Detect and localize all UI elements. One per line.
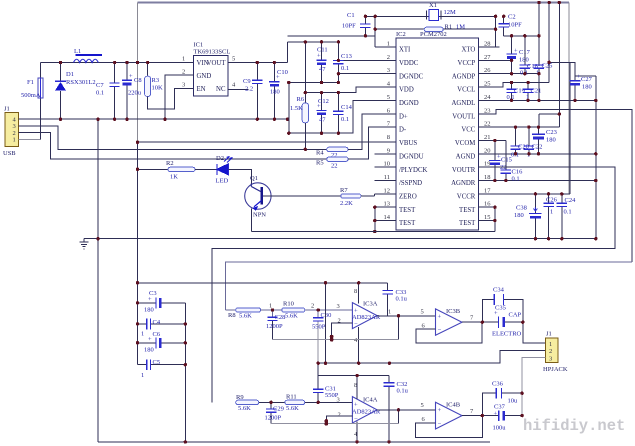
svg-text:25: 25 (484, 81, 491, 88)
svg-text:AGND: AGND (456, 153, 476, 160)
wire IC3A power pin8 riser (358, 283, 360, 304)
wire VCC branch y114.1 (539, 114, 559, 127)
svg-text:+: + (148, 296, 152, 303)
junction dots crystal (364, 15, 506, 38)
svg-text:D-: D- (399, 127, 407, 134)
svg-text:AGNDR: AGNDR (451, 180, 476, 187)
crystal X1 12M (365, 2, 495, 20)
svg-text:C23: C23 (546, 129, 557, 136)
wire USB pin4 stub (19, 118, 25, 120)
svg-text:0.1u: 0.1u (397, 388, 409, 395)
svg-text:+: + (438, 407, 442, 414)
wire 5V drop x539 (538, 3, 540, 67)
capacitor C8 electrolytic (122, 63, 142, 120)
svg-text:11: 11 (384, 174, 390, 181)
svg-text:12M: 12M (444, 9, 457, 16)
wire pin28 XTO riser (478, 46, 495, 48)
svg-text:12: 12 (384, 187, 391, 194)
svg-text:5: 5 (421, 402, 424, 409)
svg-text:C13: C13 (341, 53, 352, 60)
svg-text:3: 3 (549, 356, 552, 363)
svg-text:C38: C38 (516, 205, 527, 212)
svg-text:20: 20 (484, 147, 491, 154)
svg-text:2: 2 (311, 303, 314, 310)
svg-text:J1: J1 (546, 331, 552, 338)
capacitor C4 1 (138, 319, 186, 338)
svg-text:+: + (148, 336, 152, 343)
op-amp IC4B (421, 402, 475, 430)
svg-text:28: 28 (484, 41, 491, 48)
svg-text:180: 180 (144, 307, 154, 314)
svg-text:+: + (354, 402, 358, 409)
wire mid riser x325.5 (325, 283, 327, 363)
wire VDD rail y92.6 (305, 87, 396, 93)
wire 5V drop x549.1 (548, 3, 550, 83)
capacitor C36 10u (482, 381, 522, 416)
capacitor C15 22 electrolytic (489, 141, 512, 181)
svg-text:47: 47 (319, 66, 326, 73)
capacitor C20 0.1 (510, 127, 529, 158)
svg-text:22: 22 (484, 121, 491, 128)
svg-text:3: 3 (337, 303, 340, 310)
svg-text:C22: C22 (532, 144, 543, 151)
svg-text:C4: C4 (153, 319, 161, 326)
svg-text:R8: R8 (228, 312, 236, 319)
wire VOUTL wrap: pin23 right, down x631.8, left y262.2, down x225.4 to R8 (478, 109, 632, 262)
capacitor C28 1200P (266, 303, 285, 340)
svg-text:100u: 100u (493, 425, 507, 432)
svg-text:/SSPND: /SSPND (399, 180, 422, 187)
wire VOUTR wrap: pin19 right, down x615, left y248.6, down x211.9 to R9 (212, 167, 615, 402)
capacitor C32 0.1u (384, 376, 409, 442)
wire ground rail y238.7 (84, 238, 596, 240)
svg-text:PCM2702: PCM2702 (420, 31, 447, 38)
wire IC3A output (377, 315, 435, 317)
wire USB pin2 to D- line (19, 133, 327, 160)
svg-text:15: 15 (484, 214, 491, 221)
junction dots data path (136, 141, 307, 172)
capacitor C27 180 electrolytic (549, 62, 596, 100)
junction dots power section (59, 61, 289, 121)
wire left page border vertical x98 (97, 119, 99, 442)
svg-text:1M: 1M (456, 24, 465, 31)
wire xtal gnd rail y35.8 left (288, 35, 376, 37)
svg-text:5.6K: 5.6K (239, 313, 252, 320)
svg-text:5.6K: 5.6K (238, 405, 251, 412)
junction dots right side (96, 1, 597, 241)
wire IC1 NC stub (228, 88, 248, 90)
svg-text:C36: C36 (492, 381, 504, 388)
svg-text:TK69133SCL: TK69133SCL (194, 49, 231, 56)
wire gnd vertical x288.8 (288, 83, 290, 134)
svg-text:0.1: 0.1 (341, 65, 349, 72)
svg-text:1: 1 (549, 341, 552, 348)
svg-text:2: 2 (387, 54, 390, 61)
wire crystal node left x375.2 (375, 16, 396, 47)
resistor R7 2.2K (340, 187, 396, 207)
wire pin21 VCOM line (478, 140, 506, 142)
svg-text:C6: C6 (153, 331, 161, 338)
svg-text:−: − (438, 421, 442, 428)
svg-text:3: 3 (387, 67, 390, 74)
wire right ground bus x596 (595, 76, 597, 239)
svg-text:VCCR: VCCR (457, 194, 476, 201)
svg-text:C21: C21 (531, 88, 542, 95)
svg-text:TEST: TEST (459, 207, 476, 214)
op-amp IC3B (421, 308, 475, 335)
wire IC3B output line (462, 321, 523, 323)
wire IC3B feedback loop (416, 322, 482, 343)
svg-text:+: + (514, 48, 518, 55)
wire crystal top line (365, 15, 495, 17)
svg-text:C16: C16 (512, 169, 524, 176)
svg-text:17: 17 (484, 187, 491, 194)
svg-text:VOUT: VOUT (207, 60, 227, 67)
svg-text:1: 1 (269, 303, 272, 310)
svg-text:2: 2 (338, 412, 341, 419)
svg-text:2: 2 (549, 348, 552, 355)
svg-text:1200P: 1200P (265, 415, 282, 422)
svg-text:550P: 550P (312, 324, 326, 331)
capacitor C21 1 (523, 83, 541, 102)
svg-text:1: 1 (388, 309, 391, 316)
wire pin24 AGNDL line (478, 99, 596, 101)
svg-text:10K: 10K (152, 85, 164, 92)
wire jack pin1 wire (523, 322, 546, 343)
connector J1 USB (3, 106, 19, 158)
svg-text:180: 180 (546, 137, 556, 144)
svg-text:14: 14 (384, 214, 391, 221)
wire IC3A power pin4 riser (358, 327, 360, 363)
svg-text:J1: J1 (4, 106, 10, 113)
svg-text:0.1: 0.1 (512, 176, 520, 183)
svg-text:C15: C15 (501, 157, 512, 164)
svg-text:500mA: 500mA (21, 92, 41, 99)
svg-text:DGNDC: DGNDC (399, 73, 424, 80)
resistor R3 (145, 63, 194, 110)
wire op-amp V+ bus y282.8 (138, 282, 388, 284)
svg-text:3: 3 (337, 397, 340, 404)
capacitor C29 1200P (265, 402, 284, 423)
resistor R6 1.5K pullup (290, 42, 308, 149)
svg-text:C37: C37 (494, 404, 506, 411)
svg-text:9: 9 (387, 147, 390, 154)
svg-text:16: 16 (484, 201, 491, 208)
svg-text:R9: R9 (236, 394, 244, 401)
svg-text:C7: C7 (96, 82, 104, 89)
wire main +5V rail y62.5 (41, 62, 194, 64)
svg-text:10PF: 10PF (342, 23, 356, 30)
wire IC4B input (399, 409, 436, 411)
transistor Q1 NPN (245, 175, 495, 232)
wire TEST pins 13,14 riser (375, 207, 396, 231)
svg-text:+: + (317, 53, 321, 60)
capacitor C33 0.1u (382, 283, 407, 316)
op-amp IC4A (337, 382, 381, 438)
resistor R10 5.6K (282, 301, 353, 320)
wire pin22 VCC line (478, 126, 559, 128)
svg-text:AGNDP: AGNDP (452, 73, 476, 80)
svg-text:ELECTRO: ELECTRO (492, 331, 522, 338)
svg-text:26: 26 (484, 67, 491, 74)
wire left 5V vertical bus x137.5 (137, 3, 139, 143)
svg-text:C10: C10 (277, 69, 288, 76)
capacitor C13 (333, 42, 352, 83)
IC2 PCM2702 (384, 31, 492, 230)
svg-text:18: 18 (484, 174, 491, 181)
svg-text:1.5K: 1.5K (290, 105, 303, 112)
svg-text:180: 180 (514, 212, 524, 219)
svg-text:DGNDU: DGNDU (399, 153, 424, 160)
svg-text:0.1u: 0.1u (396, 296, 408, 303)
capacitor C10 electrolytic (269, 63, 288, 120)
svg-text:RSX301L2: RSX301L2 (66, 79, 96, 86)
svg-text:8: 8 (387, 134, 390, 141)
wire VOUTL light segment to R8 (225, 262, 631, 310)
resistor R8 5.6K (225, 308, 281, 320)
svg-text:180: 180 (582, 84, 592, 91)
capacitor C17 electrolytic (506, 36, 530, 74)
svg-text:XTI: XTI (399, 47, 411, 54)
op-amp IC3A (337, 288, 392, 344)
svg-text:1K: 1K (170, 174, 178, 181)
capacitor C38 180 electrolytic (514, 194, 542, 239)
svg-text:R6: R6 (297, 96, 305, 103)
svg-text:USB: USB (3, 150, 16, 157)
svg-text:10PF: 10PF (508, 22, 522, 29)
capacitor C23 180 electrolytic (532, 127, 557, 154)
capacitor C16 0.1 (501, 141, 523, 183)
svg-text:AGNDL: AGNDL (452, 100, 476, 107)
wire USB pin3 to D+ line (19, 126, 327, 150)
svg-text:−: − (354, 321, 358, 328)
junction dots rails (287, 40, 340, 135)
capacitor C35 electrolytic CAP (492, 305, 522, 338)
wire pin25 VCCL jog line (478, 83, 549, 88)
svg-text:TEST: TEST (399, 207, 416, 214)
capacitor C7 (96, 63, 120, 120)
wire pin17 VCCR line (478, 62, 570, 194)
wire right 5V vertical x569 to VCCR (568, 3, 570, 194)
capacitor C31 550P (313, 363, 339, 402)
svg-text:C29: C29 (273, 406, 284, 413)
svg-text:IC3A: IC3A (363, 301, 378, 308)
diode D1 (55, 63, 96, 120)
svg-text:HPJACK: HPJACK (543, 366, 568, 373)
svg-text:X1: X1 (429, 2, 437, 9)
wire IC4A output (377, 409, 435, 411)
svg-text:C2: C2 (508, 14, 516, 21)
wire IC1 GND pin2 drop (165, 75, 194, 119)
capacitor C25 1 (pin26 pair right) (534, 36, 553, 102)
svg-text:220u: 220u (128, 90, 142, 97)
wire 3.3V vertical x287.5 (287, 42, 289, 63)
wire DGNDC rail y82.5 (289, 82, 339, 84)
svg-text:VDD: VDD (399, 87, 414, 94)
svg-text:DGND: DGND (399, 100, 419, 107)
svg-text:C1: C1 (347, 12, 355, 19)
resistor R11 5.6K (285, 394, 353, 413)
wire xtal gnd rail y35.8 right (504, 35, 539, 37)
wire IC4B feedback loop (415, 416, 482, 438)
wire pin18 AGNDR line (478, 180, 596, 182)
svg-text:F1: F1 (27, 79, 34, 86)
svg-text:IC2: IC2 (396, 31, 406, 38)
svg-text:24: 24 (484, 94, 491, 101)
svg-text:1: 1 (13, 137, 16, 144)
svg-text:1: 1 (141, 331, 144, 338)
svg-text:19: 19 (484, 161, 491, 168)
svg-text:C9: C9 (243, 78, 251, 85)
resistor R2 1K (138, 160, 217, 181)
svg-text:47: 47 (319, 117, 326, 124)
ground symbol (80, 239, 89, 249)
svg-text:C24: C24 (565, 197, 577, 204)
wire pin26 AGNDP line (478, 73, 540, 75)
svg-text:5: 5 (232, 56, 235, 63)
wire IC3A feedback net (398, 316, 400, 340)
svg-text:C28: C28 (275, 314, 286, 321)
svg-text:D1: D1 (66, 71, 74, 78)
svg-text:IC1: IC1 (194, 42, 204, 49)
capacitor C3 180 electrolytic (138, 290, 186, 314)
wire DGND rail y133.2 (289, 100, 396, 133)
svg-text:R1: R1 (445, 24, 453, 31)
junction dots IC3A cell (271, 281, 400, 365)
junction dots ladder (136, 281, 187, 444)
wire USB pin1 to fuse (19, 139, 41, 141)
capacitor C14 (333, 93, 352, 134)
svg-text:NPN: NPN (253, 212, 266, 219)
svg-text:C34: C34 (493, 287, 505, 294)
svg-text:C14: C14 (341, 104, 353, 111)
svg-text:180: 180 (144, 347, 154, 354)
wire TEST pins 15,16 riser (478, 207, 495, 231)
svg-text:R4: R4 (316, 150, 324, 157)
svg-text:CAP: CAP (509, 312, 522, 319)
wire VDDC riser to pin2 (338, 42, 396, 61)
svg-text:AD823AR: AD823AR (352, 314, 381, 321)
capacitor C5 1 (138, 359, 186, 379)
svg-text:27: 27 (484, 54, 491, 61)
svg-text:R3: R3 (152, 77, 160, 84)
wire IC4A power pin8 riser (356, 376, 358, 399)
svg-text:−: − (438, 327, 442, 334)
wire cap ladder right bus x185.3 (184, 303, 186, 442)
junction dots IC4B cell (481, 392, 524, 418)
svg-text:GND: GND (197, 73, 212, 80)
IC1 regulator TK69133SCL (182, 42, 236, 96)
wire bottom border (98, 441, 490, 443)
wire 5V drop x559.3 (558, 3, 560, 128)
wire pin stubs left (375, 153, 396, 155)
wire VDDC rail y41.9 (288, 41, 339, 43)
capacitor C9 (243, 63, 263, 120)
svg-text:2: 2 (182, 69, 185, 76)
svg-text:21: 21 (484, 134, 491, 141)
svg-text:D+: D+ (399, 113, 408, 120)
svg-text:D2: D2 (216, 155, 224, 162)
fuse F1 (21, 63, 43, 140)
capacitor C22 1 (524, 127, 543, 158)
svg-text:VCCP: VCCP (458, 60, 476, 67)
LED D2 (216, 155, 252, 185)
wire DGNDC pin3 line (338, 73, 396, 75)
svg-text:TEST: TEST (399, 220, 416, 227)
svg-text:VCCL: VCCL (457, 87, 475, 94)
svg-text:IC3B: IC3B (446, 308, 461, 315)
capacitor C30 550P (311, 303, 331, 364)
svg-text:C19: C19 (514, 88, 525, 95)
svg-text:IC4A: IC4A (363, 397, 378, 404)
svg-text:1: 1 (550, 209, 553, 216)
svg-text:XTO: XTO (461, 47, 475, 54)
svg-text:1: 1 (182, 56, 185, 63)
resistor R9 5.6K (236, 394, 285, 412)
svg-text:R5: R5 (316, 160, 324, 167)
capacitor C11 electrolytic (316, 42, 327, 83)
svg-text:TEST: TEST (459, 220, 476, 227)
svg-text:+: + (129, 73, 133, 80)
svg-text:C25: C25 (542, 63, 553, 70)
capacitor C26 1 (543, 194, 557, 239)
svg-text:5: 5 (421, 309, 424, 316)
svg-text:C35: C35 (495, 305, 506, 312)
junction dots IC4A cell (269, 362, 400, 444)
wire pin27 VCCP line (478, 59, 513, 61)
svg-text:13: 13 (384, 201, 391, 208)
svg-text:C8: C8 (134, 77, 142, 84)
wire R1 line (375, 28, 495, 30)
svg-text:R10: R10 (283, 301, 294, 308)
svg-text:1: 1 (141, 372, 144, 379)
svg-text:AD823AR: AD823AR (352, 409, 381, 416)
svg-text:NC: NC (216, 86, 226, 93)
wire IC4A feedback net (398, 410, 400, 424)
wire crystal node right x495.6 (478, 16, 499, 47)
svg-text:C5: C5 (153, 359, 161, 366)
svg-text:5: 5 (387, 94, 390, 101)
svg-text:LED: LED (216, 178, 229, 185)
capacitor C34 (482, 287, 523, 323)
svg-text:VOUTR: VOUTR (452, 167, 476, 174)
svg-text:1: 1 (387, 41, 390, 48)
inductor L1 (74, 48, 103, 63)
svg-text:0.1: 0.1 (564, 209, 572, 216)
svg-text:3: 3 (182, 82, 185, 89)
capacitor C1 (342, 12, 371, 36)
capacitor C12 electrolytic (316, 93, 329, 134)
wire IC4A power pin4 riser (356, 421, 358, 442)
junction dots IC3B cell (481, 321, 525, 324)
svg-text:5.6K: 5.6K (286, 405, 299, 412)
capacitor C6 180 electrolytic (138, 331, 186, 354)
svg-text:VCC: VCC (461, 127, 475, 134)
svg-text:C26: C26 (546, 197, 558, 204)
svg-text:2.2: 2.2 (245, 86, 253, 93)
svg-text:R2: R2 (166, 160, 174, 167)
wire IC4B output line (462, 415, 522, 417)
svg-text:hifidiy.net: hifidiy.net (523, 417, 625, 435)
svg-text:C12: C12 (318, 98, 329, 105)
svg-text:VBUS: VBUS (399, 140, 417, 147)
svg-text:5.6K: 5.6K (285, 313, 298, 320)
svg-text:/PLYDCK: /PLYDCK (399, 167, 427, 174)
svg-text:+: + (494, 411, 498, 418)
capacitor C2 (499, 14, 523, 36)
svg-text:C27: C27 (581, 76, 593, 83)
svg-text:22: 22 (331, 163, 338, 170)
